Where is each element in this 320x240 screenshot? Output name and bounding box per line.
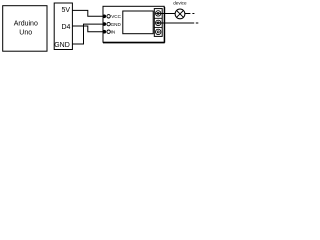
svg-text:5V: 5V: [61, 7, 70, 14]
svg-text:D4: D4: [61, 24, 70, 31]
svg-text:GND: GND: [111, 22, 122, 27]
svg-text:device: device: [173, 1, 187, 6]
svg-text:VCC: VCC: [111, 14, 121, 19]
svg-text:Uno: Uno: [19, 29, 32, 36]
svg-text:GND: GND: [54, 42, 70, 49]
svg-text:Arduino: Arduino: [14, 20, 38, 27]
svg-text:IN: IN: [111, 29, 116, 34]
